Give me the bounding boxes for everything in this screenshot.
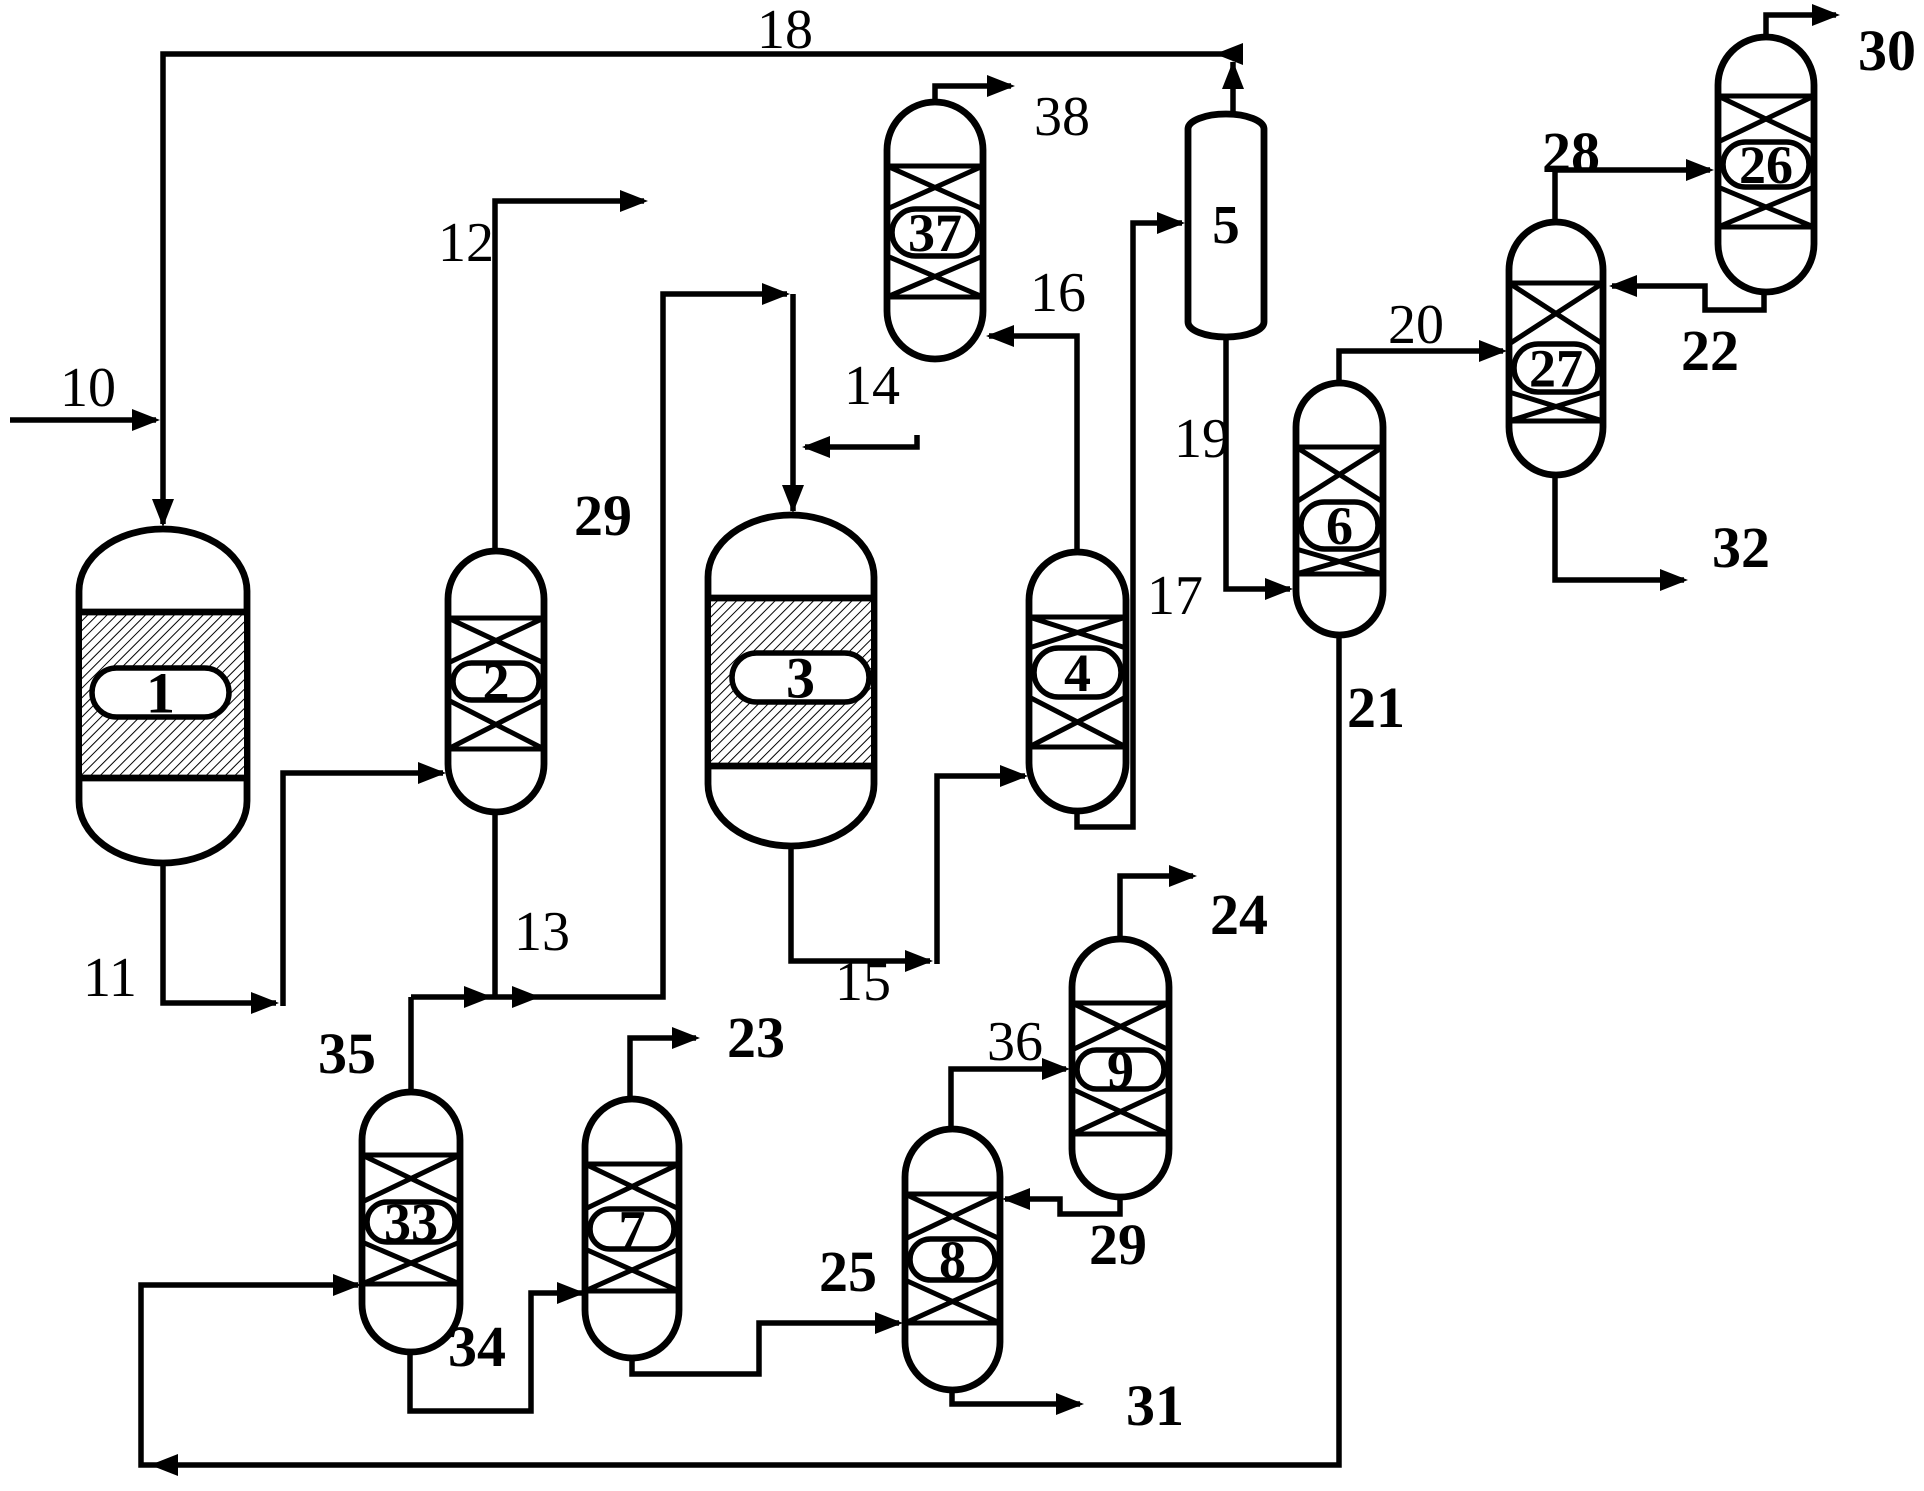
vessel 27 (packed column): [1509, 222, 1603, 475]
wire: stream 38: [935, 75, 1015, 102]
wire: stream 23: [630, 1027, 700, 1099]
svg-text:26: 26: [1739, 135, 1793, 195]
svg-text:17: 17: [1147, 565, 1203, 627]
wire: stream 11: [163, 762, 446, 1014]
svg-text:33: 33: [384, 1193, 438, 1253]
svg-text:36: 36: [987, 1011, 1043, 1073]
wire: stream 20: [1339, 340, 1507, 383]
wire: stream 30: [1766, 4, 1840, 37]
vessel 7 (packed column): [585, 1099, 679, 1358]
svg-text:37: 37: [908, 203, 962, 263]
svg-text:6: 6: [1326, 496, 1353, 556]
vessel 37 (packed column): [887, 102, 983, 359]
svg-text:23: 23: [727, 1005, 785, 1070]
svg-text:1: 1: [146, 661, 175, 726]
svg-text:14: 14: [844, 355, 900, 417]
svg-text:34: 34: [448, 1314, 506, 1379]
wire: stream 24: [1120, 865, 1197, 939]
svg-text:9: 9: [1107, 1040, 1134, 1100]
vessel 9 (packed column): [1072, 939, 1169, 1197]
wire: stream 18 riser from vessel 5 top: [1222, 61, 1244, 115]
svg-text:5: 5: [1212, 194, 1240, 255]
svg-text:38: 38: [1034, 86, 1090, 148]
wire: stream 18 (recycle to vessel 1): [152, 43, 1243, 527]
wire: stream 16: [986, 325, 1077, 552]
wire: stream 29-2: [1002, 1188, 1120, 1214]
wire: stream 29: [411, 283, 790, 1008]
svg-text:27: 27: [1529, 339, 1583, 399]
wire: stream 22: [1609, 275, 1764, 310]
vessel 26 (packed column): [1718, 37, 1814, 292]
svg-text:16: 16: [1030, 262, 1086, 324]
vessel 3 (hatched reactor): [708, 515, 874, 846]
svg-text:15: 15: [835, 951, 891, 1013]
svg-text:32: 32: [1712, 515, 1770, 580]
wire: stream 25: [632, 1312, 903, 1374]
wire: stream 28: [1555, 159, 1714, 222]
svg-text:2: 2: [483, 652, 510, 712]
svg-text:22: 22: [1681, 318, 1739, 383]
vessel 33 (packed column): [362, 1092, 460, 1352]
wire: stream 12: [495, 190, 648, 551]
vessel 5 (flash drum): [1188, 114, 1264, 337]
wire: stream 14: [802, 435, 917, 458]
svg-text:29: 29: [574, 483, 632, 548]
svg-text:7: 7: [619, 1200, 646, 1260]
wire: stream 13: [492, 812, 498, 997]
wire: stream 32: [1555, 475, 1688, 591]
svg-text:10: 10: [60, 357, 116, 419]
svg-text:31: 31: [1126, 1373, 1184, 1438]
svg-text:12: 12: [438, 212, 494, 274]
svg-text:24: 24: [1210, 882, 1268, 947]
wire: stream 15: [791, 765, 1028, 972]
svg-text:20: 20: [1388, 294, 1444, 356]
svg-text:25: 25: [819, 1239, 877, 1304]
svg-text:30: 30: [1858, 18, 1916, 83]
wire: stream 21: [141, 635, 1339, 1476]
wire: stream 31: [952, 1390, 1084, 1415]
svg-text:13: 13: [514, 901, 570, 963]
wire: stream 10: [10, 409, 160, 431]
svg-text:18: 18: [757, 0, 813, 61]
vessel 6 (packed column): [1296, 383, 1383, 635]
wire: stream 17: [1077, 212, 1185, 827]
vessel 1 (hatched reactor): [79, 529, 247, 863]
svg-text:19: 19: [1174, 408, 1230, 470]
svg-text:3: 3: [786, 646, 815, 711]
svg-text:35: 35: [318, 1021, 376, 1086]
svg-text:11: 11: [83, 947, 137, 1009]
wire: stream 35: [408, 997, 414, 1092]
svg-text:4: 4: [1064, 643, 1091, 703]
vessel 8 (packed column): [905, 1129, 1000, 1390]
wire: stream 36: [951, 1058, 1070, 1129]
svg-text:28: 28: [1542, 120, 1600, 185]
wire: stream 19: [1226, 336, 1293, 600]
svg-text:29: 29: [1089, 1212, 1147, 1277]
svg-text:21: 21: [1347, 675, 1405, 740]
vessel 2 (packed column): [448, 551, 544, 812]
wire: stream 34: [410, 1282, 585, 1411]
vessel 4 (packed column): [1029, 552, 1126, 811]
svg-text:8: 8: [939, 1230, 966, 1290]
wire: stream 3-feed: [782, 294, 804, 513]
